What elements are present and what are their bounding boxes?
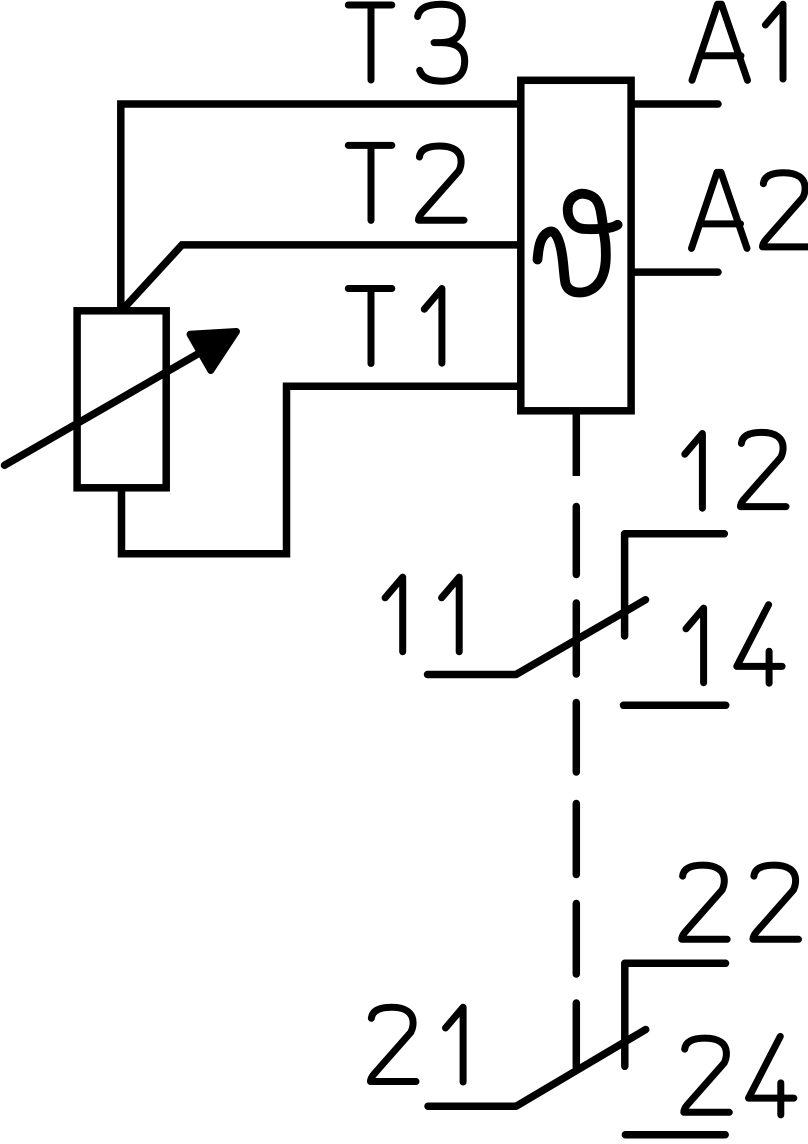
wire A1 (631, 100, 718, 108)
label A1 (692, 4, 748, 80)
label 24 (684, 1038, 730, 1112)
device box U1 (521, 80, 631, 411)
wire T2 with diagonal down to thermistor top (125, 245, 521, 308)
contact K1 fixed contact 12 corner (625, 534, 725, 636)
label 22 (682, 865, 728, 939)
contact K2 fixed contact 22 corner (625, 963, 726, 1066)
label 21 (371, 1007, 417, 1081)
label A2 (692, 172, 748, 248)
dashed actuator line (573, 415, 581, 477)
contact K1 pole wire 11 (428, 600, 646, 675)
contact K2 pole wire 21 (428, 1030, 646, 1107)
theta symbol inside box (538, 194, 618, 293)
contact K2 terminal line 24 (625, 1131, 725, 1139)
label T3 (348, 5, 392, 80)
thermistor RT rectangle (77, 311, 166, 488)
wire T3 with corner down to thermistor (121, 104, 521, 308)
label 14 (686, 608, 704, 683)
label T2 (348, 145, 392, 220)
label 11 (385, 577, 403, 652)
thermistor arrowhead (190, 332, 237, 371)
contact K1 terminal line 14 (624, 702, 726, 710)
label T1 (348, 289, 392, 364)
wire T1 with corner down-left to thermistor bottom (122, 386, 521, 554)
label 12 (685, 434, 703, 509)
thermistor diagonal arrow line (5, 354, 199, 466)
wire A2 (631, 268, 718, 276)
